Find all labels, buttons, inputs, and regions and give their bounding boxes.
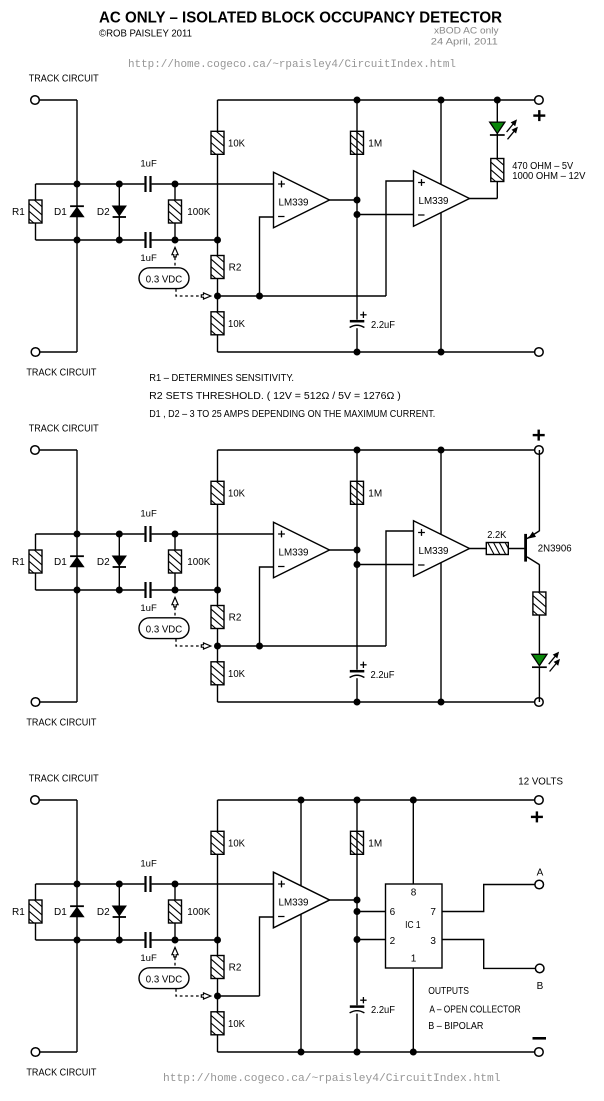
svg-text:2N3906: 2N3906 bbox=[538, 544, 572, 555]
svg-text:1000 OHM – 12V: 1000 OHM – 12V bbox=[512, 171, 586, 182]
svg-text:8: 8 bbox=[411, 888, 417, 899]
svg-text:10K: 10K bbox=[228, 839, 245, 850]
svg-text:A: A bbox=[537, 868, 544, 879]
svg-text:0.3 VDC: 0.3 VDC bbox=[146, 974, 182, 985]
svg-text:TRACK CIRCUIT: TRACK CIRCUIT bbox=[26, 718, 96, 729]
svg-text:AC ONLY – ISOLATED BLOCK OCCUP: AC ONLY – ISOLATED BLOCK OCCUPANCY DETEC… bbox=[99, 9, 502, 26]
svg-text:xBOD AC only: xBOD AC only bbox=[434, 26, 499, 37]
svg-text:R2: R2 bbox=[229, 613, 242, 624]
svg-text:R1 – DETERMINES SENSITIVITY.: R1 – DETERMINES SENSITIVITY. bbox=[149, 373, 294, 384]
svg-text:R2: R2 bbox=[229, 263, 242, 274]
svg-text:R1: R1 bbox=[12, 557, 25, 568]
svg-text:6: 6 bbox=[390, 907, 396, 918]
svg-text:10K: 10K bbox=[228, 319, 245, 330]
svg-text:TRACK CIRCUIT: TRACK CIRCUIT bbox=[26, 1068, 96, 1079]
svg-text:3: 3 bbox=[430, 936, 436, 947]
svg-text:B – BIPOLAR: B – BIPOLAR bbox=[428, 1021, 483, 1032]
svg-text:1uF: 1uF bbox=[140, 953, 157, 964]
svg-text:D1: D1 bbox=[54, 557, 67, 568]
svg-text:1uF: 1uF bbox=[140, 859, 157, 870]
svg-text:©ROB PAISLEY 2011: ©ROB PAISLEY 2011 bbox=[99, 29, 192, 40]
svg-text:2.2uF: 2.2uF bbox=[371, 320, 395, 331]
svg-text:10K: 10K bbox=[228, 1019, 245, 1030]
svg-text:TRACK CIRCUIT: TRACK CIRCUIT bbox=[29, 424, 99, 435]
svg-text:D1 , D2 – 3 TO 25 AMPS DEPENDI: D1 , D2 – 3 TO 25 AMPS DEPENDING ON THE … bbox=[149, 409, 435, 420]
svg-text:TRACK CIRCUIT: TRACK CIRCUIT bbox=[29, 774, 99, 785]
svg-text:1uF: 1uF bbox=[140, 159, 157, 170]
svg-text:OUTPUTS: OUTPUTS bbox=[428, 986, 469, 997]
svg-text:1uF: 1uF bbox=[140, 509, 157, 520]
svg-text:2.2K: 2.2K bbox=[487, 530, 507, 541]
svg-text:D2: D2 bbox=[97, 207, 110, 218]
svg-text:2.2uF: 2.2uF bbox=[371, 670, 395, 681]
svg-text:1uF: 1uF bbox=[140, 253, 157, 264]
svg-text:http://home.cogeco.ca/~rpaisle: http://home.cogeco.ca/~rpaisley4/Circuit… bbox=[163, 1073, 501, 1085]
svg-text:0.3 VDC: 0.3 VDC bbox=[146, 624, 182, 635]
svg-text:D2: D2 bbox=[97, 907, 110, 918]
svg-text:0.3 VDC: 0.3 VDC bbox=[146, 274, 182, 285]
svg-text:TRACK CIRCUIT: TRACK CIRCUIT bbox=[26, 368, 96, 379]
svg-text:1M: 1M bbox=[368, 839, 382, 850]
svg-text:http://home.cogeco.ca/~rpaisle: http://home.cogeco.ca/~rpaisley4/Circuit… bbox=[128, 59, 456, 71]
svg-text:100K: 100K bbox=[187, 907, 210, 918]
svg-text:7: 7 bbox=[430, 907, 436, 918]
svg-text:D1: D1 bbox=[54, 207, 67, 218]
svg-text:24 April, 2011: 24 April, 2011 bbox=[431, 37, 498, 48]
svg-text:B: B bbox=[537, 981, 544, 992]
svg-text:R2: R2 bbox=[229, 963, 242, 974]
svg-text:2: 2 bbox=[390, 936, 396, 947]
svg-text:R1: R1 bbox=[12, 207, 25, 218]
svg-text:2.2uF: 2.2uF bbox=[371, 1005, 395, 1016]
svg-text:1: 1 bbox=[411, 954, 417, 965]
svg-text:A – OPEN COLLECTOR: A – OPEN COLLECTOR bbox=[429, 1004, 520, 1015]
svg-text:12 VOLTS: 12 VOLTS bbox=[518, 777, 563, 788]
svg-text:100K: 100K bbox=[187, 557, 210, 568]
svg-text:1uF: 1uF bbox=[140, 603, 157, 614]
svg-text:IC 1: IC 1 bbox=[405, 920, 421, 931]
svg-text:1M: 1M bbox=[368, 139, 382, 150]
svg-text:R2 SETS THRESHOLD. ( 12V = 512: R2 SETS THRESHOLD. ( 12V = 512Ω / 5V = 1… bbox=[149, 391, 401, 402]
svg-text:R1: R1 bbox=[12, 907, 25, 918]
svg-text:10K: 10K bbox=[228, 139, 245, 150]
svg-text:1M: 1M bbox=[368, 489, 382, 500]
svg-text:10K: 10K bbox=[228, 669, 245, 680]
svg-text:D1: D1 bbox=[54, 907, 67, 918]
svg-text:100K: 100K bbox=[187, 207, 210, 218]
svg-text:10K: 10K bbox=[228, 489, 245, 500]
svg-text:D2: D2 bbox=[97, 557, 110, 568]
svg-text:TRACK CIRCUIT: TRACK CIRCUIT bbox=[29, 74, 99, 85]
